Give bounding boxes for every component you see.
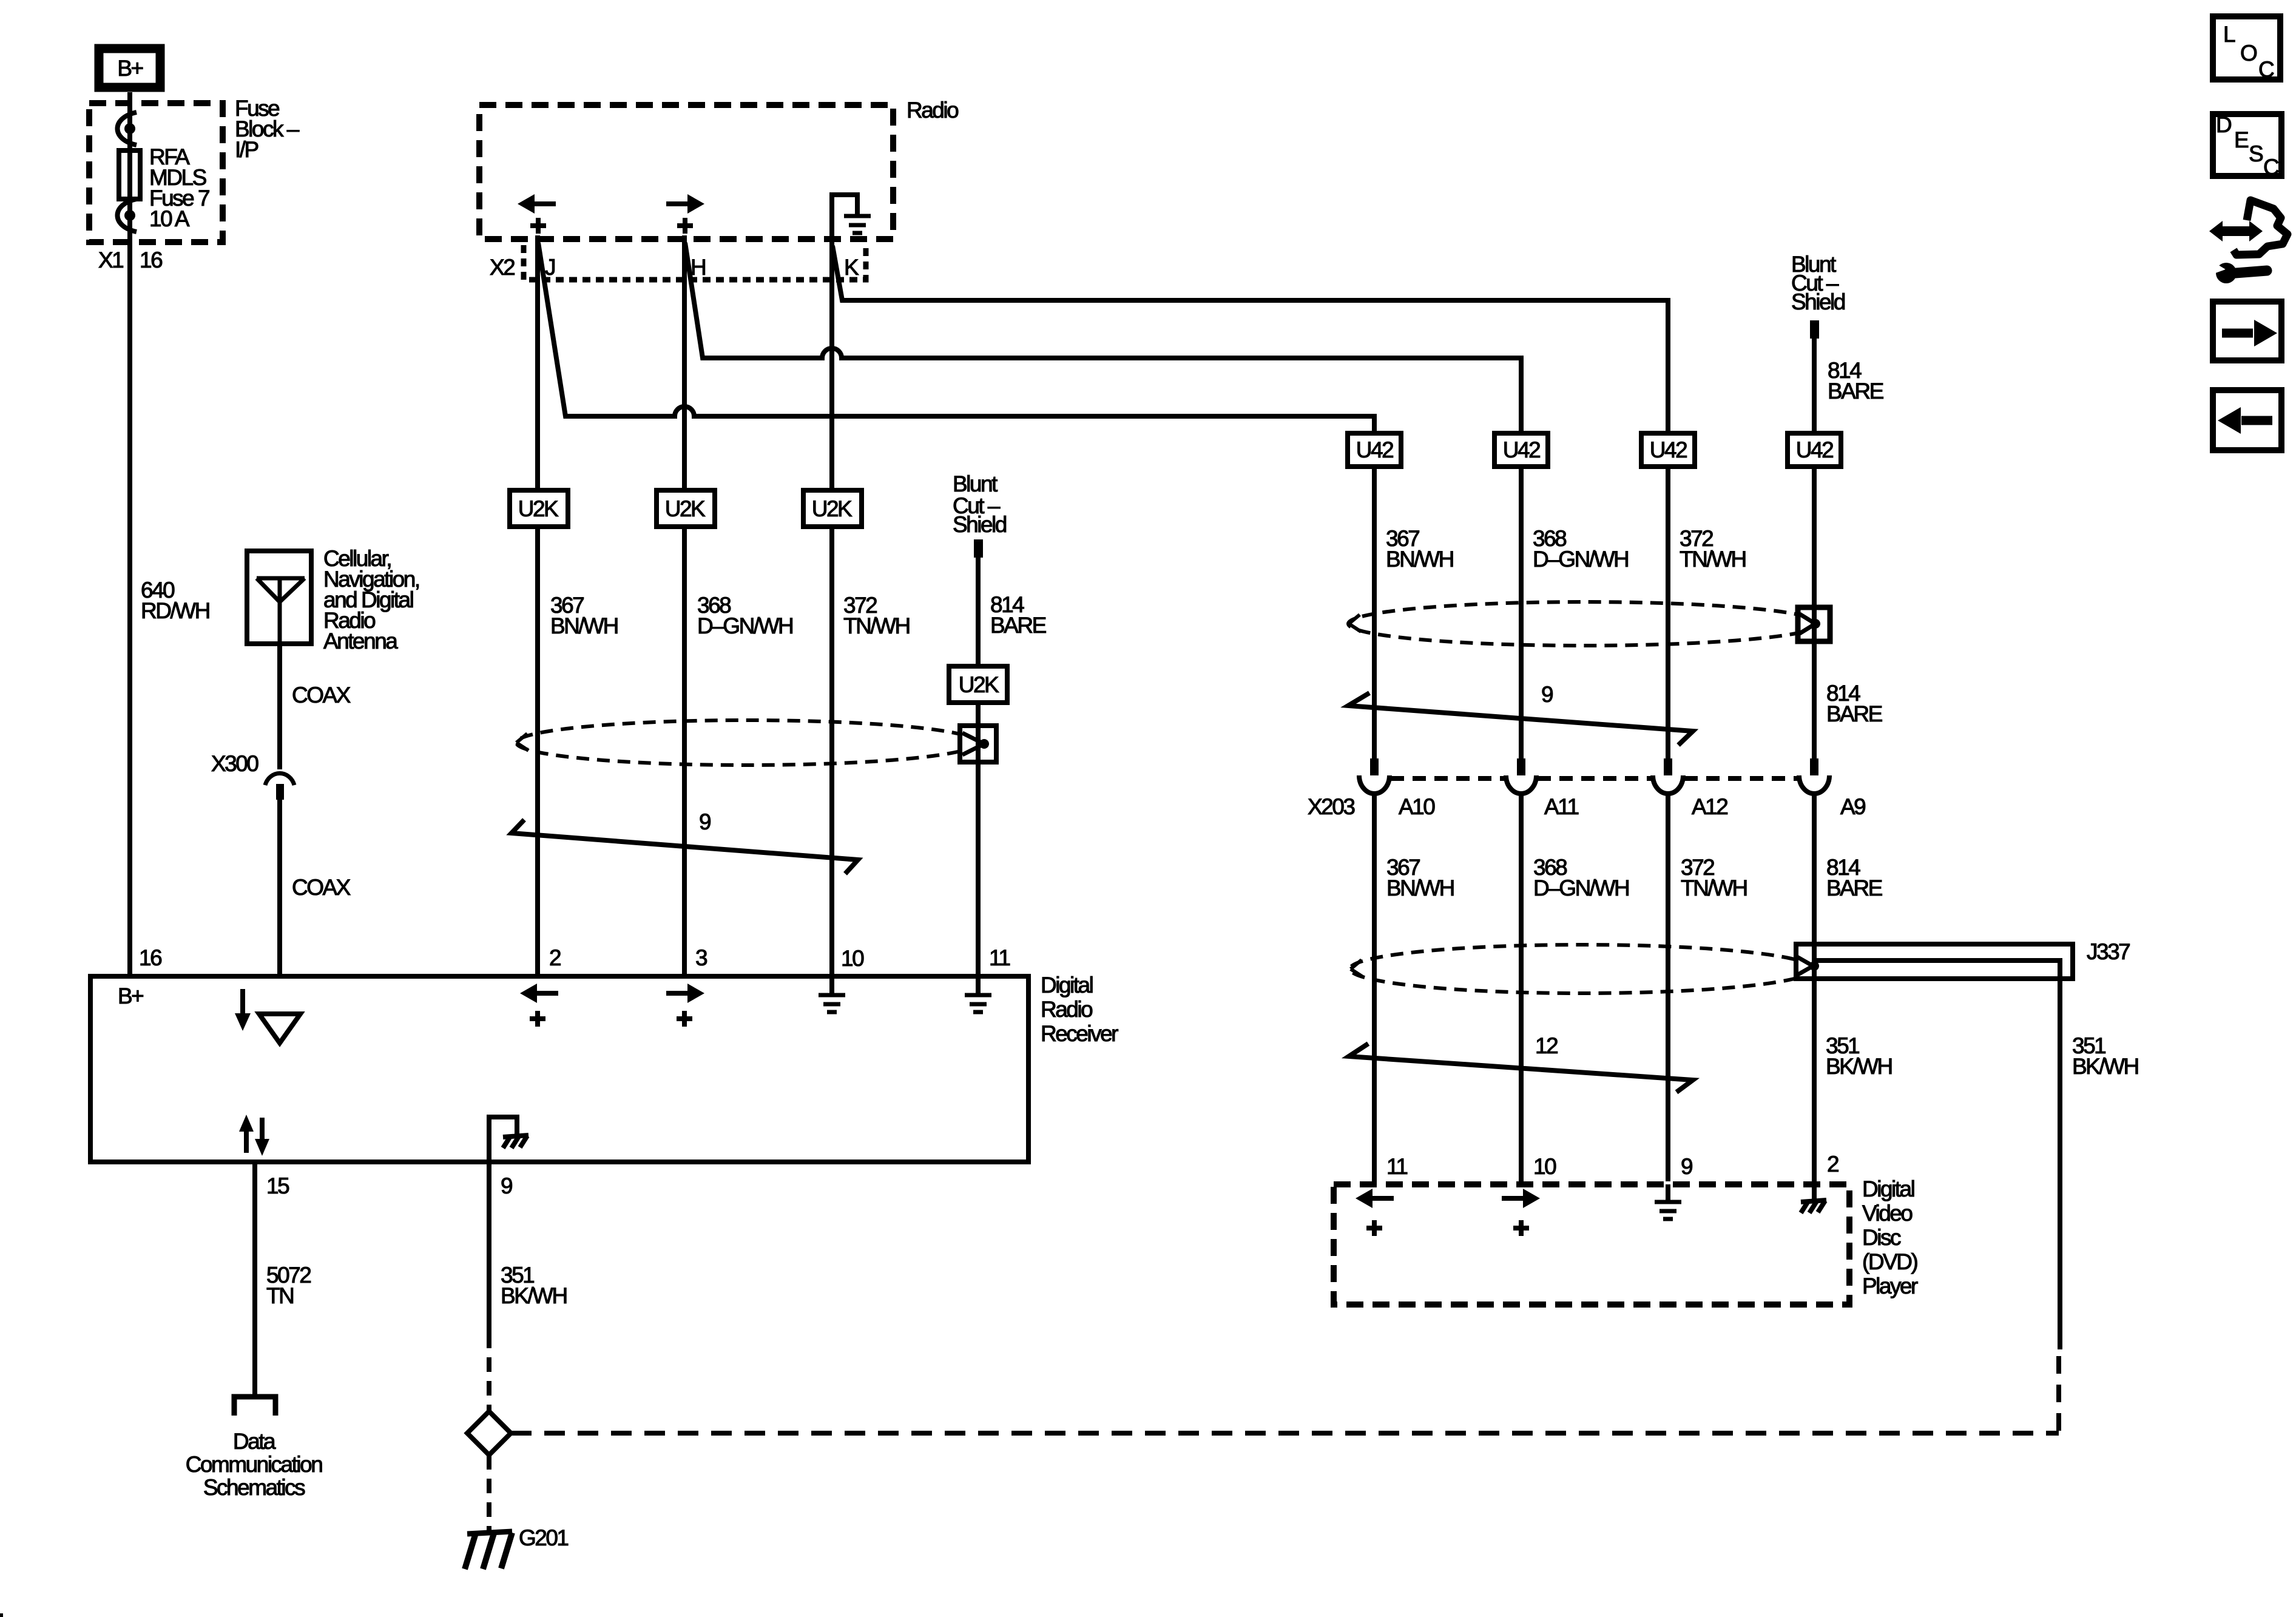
svg-text:Receiver: Receiver — [1041, 1021, 1118, 1046]
svg-text:BN/WH: BN/WH — [1386, 547, 1453, 572]
svg-text:Disc: Disc — [1862, 1225, 1901, 1250]
svg-text:16: 16 — [140, 248, 162, 272]
svg-text:2: 2 — [549, 945, 561, 970]
label: X203 A10 A11 A12 A9 — [1308, 794, 1865, 819]
splice pack J337 box — [1796, 942, 2073, 981]
dashed wire diamond to G201 — [487, 1455, 491, 1530]
dashed wire into ground splice — [487, 1334, 491, 1411]
receiver antenna input triangle — [259, 1014, 300, 1043]
radio pin J plus — [530, 218, 546, 234]
svg-text:O: O — [2240, 41, 2257, 66]
svg-text:11: 11 — [989, 945, 1010, 970]
label: Data Communication Schematics — [186, 1429, 322, 1500]
label: RFA MDLS Fuse 7 10 A — [149, 144, 209, 231]
wire: B+ feed into fuse block — [127, 92, 132, 149]
svg-text:15: 15 — [266, 1173, 289, 1198]
svg-text:BK/WH: BK/WH — [2072, 1054, 2138, 1079]
wire J branch: slant and run to A10 with hop over H — [538, 243, 1374, 416]
svg-text:U2K: U2K — [665, 496, 706, 521]
antenna symbol — [257, 578, 305, 646]
fuse RFA MDLS Fuse 7 (10 A) — [119, 150, 140, 199]
svg-text:U42: U42 — [1356, 437, 1393, 462]
icon: LOC box — [2213, 16, 2280, 82]
shield ellipse right lower arrow tip — [1351, 960, 1363, 977]
DVD pin 10 plus — [1513, 1220, 1529, 1236]
svg-text:H: H — [690, 255, 705, 280]
ground splice diamond — [467, 1411, 511, 1455]
svg-text:COAX: COAX — [292, 683, 351, 707]
connector X203 terminals and couplers — [1359, 758, 1829, 794]
twisted lead marker 9 (right) — [1348, 693, 1693, 745]
label: 372 TN/WH (right lower) — [1681, 855, 1747, 900]
shield ellipse right upper (dashed) — [1348, 602, 1820, 646]
svg-text:Antenna: Antenna — [323, 629, 398, 653]
wire 814 BARE left drain — [976, 558, 981, 974]
svg-text:BN/WH: BN/WH — [1386, 876, 1454, 900]
svg-text:A9: A9 — [1840, 794, 1865, 819]
svg-text:2: 2 — [1827, 1152, 1838, 1176]
splice code U2K box 2 — [657, 490, 715, 527]
label: 367 BN/WH — [550, 593, 618, 638]
receiver pin 9 internal chassis ground — [489, 1117, 528, 1162]
svg-text:U2K: U2K — [959, 672, 999, 697]
off-page reference symbol (data link) — [234, 1397, 275, 1416]
svg-text:I/P: I/P — [235, 137, 258, 162]
icon: wrench — [2207, 258, 2267, 283]
svg-text:L: L — [2223, 22, 2235, 47]
svg-text:BARE: BARE — [1828, 379, 1884, 403]
wire K: radio pin K down to receiver pin 10 (372 TN/WH) — [829, 242, 834, 974]
svg-text:U42: U42 — [1796, 437, 1833, 462]
svg-text:Blunt: Blunt — [953, 471, 998, 496]
svg-text:BARE: BARE — [990, 613, 1047, 638]
svg-text:X203: X203 — [1308, 794, 1354, 819]
svg-text:10: 10 — [1533, 1154, 1556, 1179]
label: 814 BARE (right lower) — [1826, 855, 1883, 900]
svg-text:BARE: BARE — [1826, 876, 1883, 900]
svg-text:Communication: Communication — [186, 1452, 322, 1477]
splice code U42 box 2 — [1494, 433, 1548, 467]
svg-text:U2K: U2K — [518, 496, 559, 521]
svg-text:Data: Data — [233, 1429, 276, 1454]
svg-text:TN/WH: TN/WH — [1681, 876, 1747, 900]
icon: arrow left box — [2213, 390, 2281, 450]
svg-text:J337: J337 — [2087, 939, 2130, 964]
receiver pin 2 plus — [530, 1011, 545, 1027]
svg-text:TN: TN — [266, 1283, 293, 1308]
DVD pin 10 arrow (right) — [1502, 1189, 1540, 1208]
blunt cut stub (right shield drain) — [1810, 320, 1819, 339]
svg-text:Video: Video — [1862, 1201, 1913, 1226]
label: 5072 TN — [266, 1263, 311, 1308]
label: 351 BK/WH (left leg) — [1826, 1033, 1892, 1079]
svg-text:A11: A11 — [1544, 794, 1579, 819]
svg-text:(DVD): (DVD) — [1862, 1249, 1917, 1274]
svg-text:RD/WH: RD/WH — [141, 598, 209, 623]
wire 351 BK/WH left leg to DVD pin 2 — [1812, 981, 1817, 1181]
svg-text:A10: A10 — [1399, 794, 1435, 819]
wire 814 BARE right drain upper — [1812, 339, 1817, 758]
label: 640 RD/WH — [141, 578, 209, 623]
ground G201 chassis symbol — [465, 1531, 512, 1569]
svg-text:A12: A12 — [1692, 794, 1727, 819]
receiver pin 3 plus — [677, 1011, 692, 1027]
radio pin H plus — [677, 218, 693, 234]
splice code U42 box 4 — [1788, 433, 1841, 467]
svg-text:Schematics: Schematics — [203, 1475, 305, 1500]
svg-text:G201: G201 — [519, 1525, 568, 1550]
label: 368 D-GN/WH (right lower) — [1533, 855, 1629, 900]
Radio dashed box — [479, 105, 893, 239]
svg-text:U42: U42 — [1650, 437, 1687, 462]
svg-text:D–GN/WH: D–GN/WH — [1533, 547, 1628, 572]
antenna module box — [247, 551, 311, 644]
fuse block terminal hook bottom — [118, 199, 137, 232]
label: 372 TN/WH — [843, 593, 910, 638]
label: Digital Radio Receiver — [1041, 973, 1118, 1046]
twisted lead marker 12 — [1349, 1044, 1693, 1092]
icon: DESC box — [2213, 112, 2281, 180]
label: 368 D-GN/WH — [697, 593, 792, 638]
blunt cut stub (left shield drain) — [974, 539, 983, 558]
label: 814 BARE (left) — [990, 592, 1047, 638]
shield junction box left — [960, 726, 996, 762]
fuse block I/P dashed box — [89, 103, 223, 242]
wire 351 BK/WH right leg down — [2058, 981, 2062, 1349]
wire 351 BK/WH from receiver pin 9 — [487, 1164, 491, 1334]
splice code U2K box 3 — [803, 490, 862, 527]
wire K branch: slant and run to A12 — [832, 246, 1668, 300]
splice code U42 box 1 — [1348, 433, 1401, 467]
svg-text:Shield: Shield — [953, 512, 1007, 537]
label: 367 BN/WH (right upper) — [1386, 526, 1453, 572]
svg-text:U42: U42 — [1503, 437, 1540, 462]
wire: COAX antenna lead lower — [277, 800, 282, 974]
svg-text:X300: X300 — [211, 751, 258, 776]
wire A12 lower to DVD pin 9 — [1666, 793, 1670, 1181]
svg-text:B+: B+ — [118, 984, 143, 1008]
shield ellipse left arrow tip — [516, 734, 528, 751]
radio pin K internal ground — [832, 195, 871, 242]
icon: arrow right box — [2213, 302, 2281, 360]
svg-text:9: 9 — [501, 1173, 512, 1198]
svg-text:9: 9 — [1681, 1154, 1692, 1179]
svg-text:Player: Player — [1862, 1274, 1918, 1298]
receiver pin 15 bidirectional arrows — [239, 1115, 269, 1156]
label: 372 TN/WH (right upper) — [1680, 526, 1746, 572]
svg-text:BN/WH: BN/WH — [550, 613, 618, 638]
svg-text:TN/WH: TN/WH — [1680, 547, 1746, 572]
label: 367 BN/WH (right lower) — [1386, 855, 1454, 900]
corner artifact dot — [0, 1613, 3, 1617]
shield junction box right upper — [1798, 605, 1830, 644]
label: pin 2 3 10 11 above receiver — [549, 945, 1010, 971]
icon: vehicle outline — [2234, 200, 2288, 255]
dashed ground wire rise to J337 branch — [2056, 1349, 2061, 1431]
svg-text:Radio: Radio — [907, 98, 959, 123]
svg-text:D: D — [2216, 112, 2231, 137]
label: 351 BK/WH — [501, 1263, 567, 1308]
radio pin H output arrow (right) — [666, 194, 704, 214]
Digital Radio Receiver box — [90, 976, 1028, 1162]
svg-text:9: 9 — [699, 809, 711, 834]
label: X2 J H K — [490, 255, 859, 280]
wire 5072 TN from receiver pin 15 — [252, 1164, 257, 1394]
svg-text:D–GN/WH: D–GN/WH — [1533, 876, 1629, 900]
svg-text:C: C — [2258, 57, 2274, 82]
radio pin J output arrow (left) — [518, 194, 556, 214]
label: 368 D-GN/WH (right upper) — [1533, 526, 1628, 572]
svg-text:3: 3 — [695, 945, 707, 970]
svg-text:Digital: Digital — [1862, 1176, 1914, 1201]
splice code U2K box 4 — [949, 666, 1007, 703]
label: DVD pins 11 10 9 2 — [1386, 1152, 1838, 1179]
receiver pin 3 arrow (right) — [666, 984, 704, 1003]
svg-text:E: E — [2234, 127, 2249, 152]
fuse block terminal hook top — [118, 112, 137, 145]
wire 640 RD/WH from fuse to receiver pin 16 — [127, 201, 132, 974]
shield ellipse right upper arrow tip — [1349, 615, 1361, 632]
svg-text:11: 11 — [1386, 1154, 1407, 1179]
wire A10 vertical (367 BN/WH) — [1372, 414, 1377, 758]
wire A10 lower to DVD pin 11 — [1372, 793, 1377, 1181]
DVD pin 2 internal chassis ground — [1801, 1184, 1826, 1213]
connector X203 dashed line — [1391, 776, 1798, 781]
DVD pin 9 internal ground — [1655, 1184, 1681, 1219]
twisted lead marker 9 (left) — [512, 820, 858, 874]
svg-text:Radio: Radio — [1041, 997, 1093, 1022]
svg-text:S: S — [2249, 141, 2263, 166]
svg-text:BARE: BARE — [1826, 701, 1883, 726]
svg-text:16: 16 — [139, 945, 161, 970]
wire A11 vertical (368 D-GN/WH) — [1519, 356, 1524, 758]
svg-text:B+: B+ — [117, 56, 143, 81]
receiver pin 10 internal ground — [819, 976, 845, 1012]
label: 814 BARE (right mid) — [1826, 681, 1883, 726]
svg-text:12: 12 — [1535, 1033, 1558, 1058]
label: Digital Video Disc (DVD) Player — [1862, 1176, 1918, 1298]
wire H: radio pin H down to receiver pin 3 (368 D-GN/WH) — [682, 235, 687, 974]
label: Cellular, Navigation, and Digital Radio Antenna — [323, 546, 419, 653]
svg-text:U2K: U2K — [812, 496, 853, 521]
svg-text:BK/WH: BK/WH — [501, 1283, 567, 1308]
receiver pin 11 internal ground — [965, 976, 991, 1012]
svg-text:COAX: COAX — [292, 875, 351, 900]
svg-text:X1: X1 — [98, 248, 123, 272]
label: 814 BARE (right upper) — [1828, 358, 1884, 403]
receiver antenna input arrow — [235, 989, 251, 1031]
label: Blunt Cut - Shield (right) — [1791, 252, 1845, 314]
label: Blunt Cut - Shield (left) — [953, 471, 1007, 537]
svg-text:D–GN/WH: D–GN/WH — [697, 613, 792, 638]
svg-text:9: 9 — [1541, 682, 1553, 707]
wire: COAX antenna lead upper — [277, 646, 282, 769]
svg-text:X2: X2 — [490, 255, 515, 280]
splice code U2K box 1 — [510, 490, 568, 527]
wire A9 lower to J337 — [1812, 793, 1817, 942]
label: connector X1 pin 16 — [98, 248, 162, 272]
svg-text:Digital: Digital — [1041, 973, 1093, 998]
shield ellipse left (dashed) — [516, 720, 977, 765]
splice code U42 box 3 — [1641, 433, 1695, 467]
receiver pin 2 arrow (left) — [520, 984, 558, 1003]
svg-text:C: C — [2263, 155, 2279, 180]
wire J: radio pin J down to receiver pin 2 (367 BN/WH) — [535, 235, 540, 974]
svg-text:10 A: 10 A — [149, 206, 190, 231]
dashed ground wire to DVD player 351 BK/WH — [511, 1431, 2059, 1436]
svg-text:Shield: Shield — [1791, 289, 1845, 314]
label: Fuse Block - I/P — [235, 96, 300, 162]
wire H branch: slant and run to A11 with hop over K — [685, 243, 1521, 358]
DVD pin 11 plus — [1366, 1220, 1382, 1236]
DVD pin 11 arrow (left) — [1356, 1189, 1394, 1208]
svg-text:K: K — [844, 255, 859, 280]
label: 351 BK/WH (right leg) — [2072, 1033, 2138, 1079]
svg-text:BK/WH: BK/WH — [1826, 1054, 1892, 1079]
B+ power symbol box — [99, 49, 160, 87]
svg-text:J: J — [545, 255, 555, 280]
connector X2 dashed box — [524, 245, 866, 280]
inline connector X300 — [265, 774, 294, 800]
icon: vehicle harness double arrow — [2209, 221, 2263, 241]
shield ellipse right lower (dashed) — [1350, 945, 1814, 993]
svg-text:10: 10 — [841, 946, 864, 971]
svg-text:TN/WH: TN/WH — [843, 613, 910, 638]
Digital Video Disc (DVD) Player dashed box — [1334, 1184, 1849, 1305]
wire A12 vertical (372 TN/WH) — [1666, 298, 1670, 758]
wire A11 lower to DVD pin 10 — [1519, 793, 1524, 1181]
